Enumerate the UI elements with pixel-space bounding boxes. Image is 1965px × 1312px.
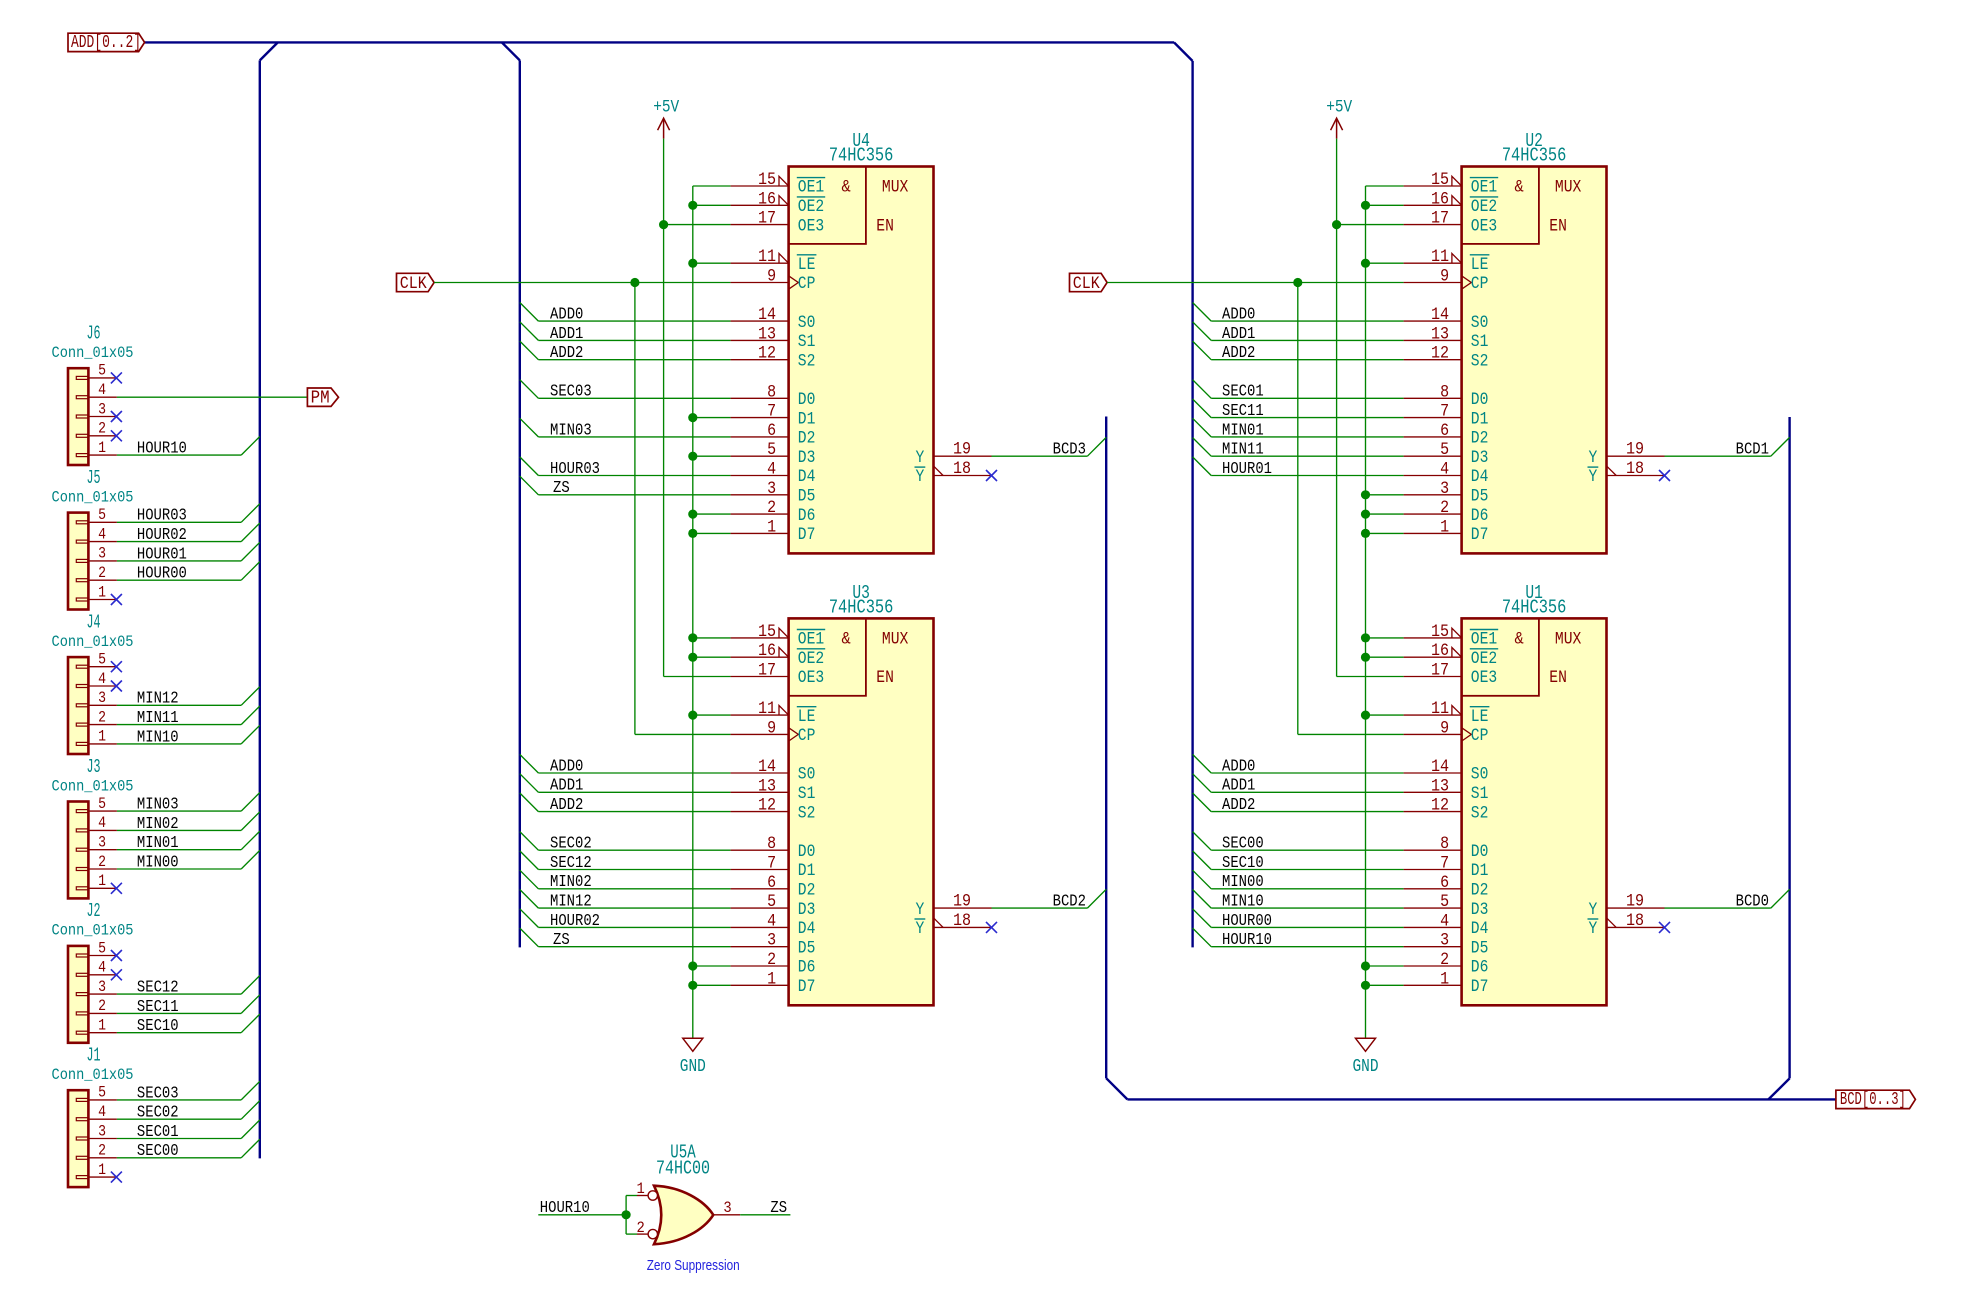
svg-text:2: 2 — [98, 420, 106, 438]
wire/net label HOUR00 to U1 — [1193, 909, 1404, 930]
svg-text:ADD0: ADD0 — [550, 756, 583, 775]
U1 pin 14 S0 — [1404, 757, 1489, 785]
svg-text:MIN00: MIN00 — [1222, 872, 1264, 891]
svg-text:3: 3 — [767, 931, 776, 951]
svg-text:1: 1 — [1440, 969, 1449, 989]
svg-text:HOUR01: HOUR01 — [137, 544, 187, 563]
U2 pin 5 D3 — [1404, 440, 1489, 468]
U4 pin 16 OE2 — [731, 189, 826, 217]
wire/net label SEC02 to U3 — [520, 832, 731, 853]
U2 pin 4 D4 — [1404, 460, 1489, 488]
wire/net label SEC11 from J2 pin 2 to bus — [117, 995, 260, 1016]
wire/net label ZS to U3 — [520, 928, 731, 949]
U3 pin 11 LE — [731, 699, 817, 727]
U1 pin 6 D2 — [1404, 873, 1489, 901]
svg-text:D3: D3 — [1471, 901, 1489, 920]
U3 AND-section symbol &amp; and MUX / EN labels — [842, 630, 909, 689]
U2 pin 11 LE — [1404, 247, 1490, 275]
svg-text:BCD0: BCD0 — [1736, 892, 1769, 911]
svg-text:HOUR10: HOUR10 — [137, 439, 187, 458]
U2 pin 2 D6 — [1404, 498, 1489, 526]
wire/net label MIN02 from J3 pin 4 to bus — [117, 812, 260, 833]
U3 pin 7 D1 — [731, 854, 816, 882]
svg-text:5: 5 — [98, 362, 106, 380]
NAND gate U5A 74HC00 (OR form with inverted inputs) — [654, 1186, 713, 1245]
wire/net label ADD2 to U2 — [1193, 341, 1404, 362]
wire/net label SEC03 from J1 pin 5 to bus — [117, 1081, 260, 1102]
svg-text:HOUR03: HOUR03 — [137, 506, 187, 525]
svg-text:1: 1 — [98, 1161, 106, 1179]
svg-text:4: 4 — [98, 814, 106, 832]
svg-text:BCD1: BCD1 — [1736, 440, 1769, 459]
U4 pin 17 OE3 — [731, 209, 825, 237]
J4 pin 4 — [88, 670, 117, 688]
wire GND rail to U2 unused inputs D5,D6,D7 — [1366, 495, 1404, 534]
U1 pin 16 OE2 — [1404, 641, 1499, 669]
no-connect X on J2 pin 4 — [111, 969, 122, 980]
svg-text:16: 16 — [758, 189, 776, 209]
svg-text:5: 5 — [1440, 440, 1449, 460]
J2 pin 2 — [88, 997, 117, 1015]
U4 pin 6 D2 — [731, 421, 816, 449]
U1 pin 13 S1 — [1404, 776, 1489, 804]
wire/net label HOUR01 to U2 — [1193, 457, 1404, 478]
U1 pin 19 Y output — [1589, 892, 1665, 920]
svg-text:15: 15 — [1431, 622, 1449, 642]
svg-text:D4: D4 — [798, 468, 816, 487]
J3 pin 2 — [88, 853, 117, 871]
bus BCD right vertical — [1788, 417, 1790, 1078]
svg-text:2: 2 — [98, 853, 106, 871]
svg-text:EN: EN — [876, 217, 894, 236]
U3 pin 12 S2 — [731, 796, 816, 824]
svg-text:D5: D5 — [1471, 488, 1489, 507]
svg-text:14: 14 — [1431, 757, 1449, 777]
svg-text:5: 5 — [98, 939, 106, 957]
svg-text:3: 3 — [767, 479, 776, 499]
svg-text:4: 4 — [1440, 911, 1449, 931]
U2 pin 16 OE2 — [1404, 189, 1499, 217]
svg-text:SEC03: SEC03 — [137, 1083, 179, 1102]
svg-text:MIN11: MIN11 — [1222, 440, 1264, 459]
svg-text:2: 2 — [98, 997, 106, 1015]
J6 pin 1 — [88, 439, 117, 457]
wire GND rail to U4 unused inputs D1,D3,D6,D7 — [693, 418, 731, 534]
svg-text:EN: EN — [1549, 217, 1567, 236]
svg-text:OE2: OE2 — [798, 198, 824, 217]
U1 pin 3 D5 — [1404, 931, 1489, 959]
svg-text:OE3: OE3 — [798, 669, 824, 688]
connector J6 Conn_01x05 body — [68, 368, 88, 465]
global label CLK — [397, 273, 435, 294]
no-connect X on J4 pin 4 — [111, 681, 122, 692]
svg-text:BCD[0..3]: BCD[0..3] — [1840, 1090, 1906, 1110]
svg-text:HOUR00: HOUR00 — [137, 564, 187, 583]
svg-text:OE2: OE2 — [1471, 198, 1497, 217]
U4 pin 2 D6 — [731, 498, 816, 526]
svg-text:SEC02: SEC02 — [550, 834, 592, 853]
bus bend to middle vertical — [502, 42, 520, 60]
wire/net label ADD2 to U4 — [520, 341, 731, 362]
no-connect X on J6 pin 2 — [111, 430, 122, 441]
wire BCD1 from U2 Y pin 19 to BCD bus — [1665, 437, 1790, 458]
svg-text:74HC356: 74HC356 — [1502, 597, 1567, 619]
svg-text:Conn_01x05: Conn_01x05 — [52, 633, 134, 651]
svg-text:4: 4 — [98, 670, 106, 688]
connector J2 Conn_01x05 body — [68, 946, 88, 1043]
wire/net label MIN00 from J3 pin 2 to bus — [117, 850, 260, 871]
global label BCD[0..3] — [1836, 1090, 1916, 1110]
J2 pin 3 — [88, 978, 117, 996]
svg-text:SEC12: SEC12 — [137, 978, 179, 997]
J6 pin 3 — [88, 400, 117, 418]
svg-text:HOUR03: HOUR03 — [550, 459, 600, 478]
svg-text:CP: CP — [798, 727, 816, 746]
svg-text:15: 15 — [758, 170, 776, 190]
svg-text:J4: J4 — [87, 611, 101, 633]
svg-text:5: 5 — [98, 506, 106, 524]
svg-text:MIN01: MIN01 — [137, 833, 179, 852]
svg-text:LE: LE — [1471, 256, 1489, 275]
svg-text:&: & — [1515, 178, 1524, 198]
svg-text:1: 1 — [98, 1017, 106, 1035]
U4 pin 8 D0 — [731, 382, 816, 410]
wire/net label MIN03 from J3 pin 5 to bus — [117, 793, 260, 814]
wire GND rail (OE1,OE2,LE,unused D inputs) — [693, 186, 731, 1038]
svg-text:SEC03: SEC03 — [550, 382, 592, 401]
svg-text:Y: Y — [1589, 901, 1598, 920]
svg-text:D3: D3 — [1471, 449, 1489, 468]
svg-text:&: & — [1515, 630, 1524, 650]
U3 pin 9 CP — [731, 718, 816, 746]
wire/net label MIN10 to U1 — [1193, 890, 1404, 911]
svg-text:D4: D4 — [1471, 920, 1489, 939]
global label PM — [307, 388, 338, 409]
U2 pin 18 Y-bar output (no-connect) — [1588, 459, 1665, 487]
U2 pin 12 S2 — [1404, 344, 1489, 372]
svg-text:5: 5 — [98, 651, 106, 669]
wire/net label SEC03 to U4 — [520, 380, 731, 401]
U2 pin 15 OE1 — [1404, 170, 1499, 198]
svg-text:17: 17 — [1431, 209, 1449, 229]
U2 pin 9 CP — [1404, 267, 1489, 295]
svg-text:OE3: OE3 — [1471, 217, 1497, 236]
svg-text:15: 15 — [758, 622, 776, 642]
svg-text:MIN01: MIN01 — [1222, 420, 1264, 439]
svg-text:HOUR02: HOUR02 — [137, 525, 187, 544]
wire/net label MIN00 to U1 — [1193, 870, 1404, 891]
wire/net label MIN11 to U2 — [1193, 438, 1404, 459]
svg-text:18: 18 — [1626, 459, 1644, 479]
J5 pin 3 — [88, 545, 117, 563]
svg-text:S1: S1 — [1471, 785, 1489, 804]
svg-text:74HC356: 74HC356 — [1502, 145, 1567, 167]
wire/net label HOUR00 from J5 pin 2 to bus — [117, 562, 260, 583]
svg-text:ADD1: ADD1 — [550, 776, 583, 795]
svg-text:8: 8 — [1440, 834, 1449, 854]
no-connect X on J4 pin 5 — [111, 661, 122, 672]
bus middle vertical (U4/U3 side) — [519, 60, 521, 947]
svg-text:2: 2 — [98, 1142, 106, 1160]
svg-text:11: 11 — [1431, 699, 1449, 719]
svg-text:S2: S2 — [798, 352, 816, 371]
U2 pin 13 S1 — [1404, 324, 1489, 352]
svg-text:SEC12: SEC12 — [550, 853, 592, 872]
svg-text:HOUR10: HOUR10 — [1222, 930, 1272, 949]
wire/net label MIN01 from J3 pin 3 to bus — [117, 831, 260, 852]
U3 pin 5 D3 — [731, 892, 816, 920]
junction +5V at U4 OE3 — [659, 220, 668, 229]
wire/net label ADD1 to U1 — [1193, 774, 1404, 795]
svg-text:D2: D2 — [798, 430, 816, 449]
IC U2 74HC356 multiplexer body — [1462, 167, 1607, 554]
svg-text:1: 1 — [98, 439, 106, 457]
svg-text:11: 11 — [758, 247, 776, 267]
wire/net label SEC10 to U1 — [1193, 851, 1404, 872]
svg-text:1: 1 — [767, 969, 776, 989]
U4 pin 1 D7 — [731, 517, 816, 545]
svg-text:Conn_01x05: Conn_01x05 — [52, 777, 134, 795]
svg-text:16: 16 — [758, 641, 776, 661]
svg-text:9: 9 — [1440, 267, 1449, 287]
svg-text:18: 18 — [953, 459, 971, 479]
svg-text:8: 8 — [767, 382, 776, 402]
svg-text:MUX: MUX — [882, 631, 908, 650]
U4 pin 13 S1 — [731, 324, 816, 352]
wire/net label SEC00 to U1 — [1193, 832, 1404, 853]
wire/net label SEC01 to U2 — [1193, 380, 1404, 401]
J2 pin 5 — [88, 939, 117, 957]
svg-text:19: 19 — [1626, 892, 1644, 912]
svg-text:MUX: MUX — [1555, 631, 1581, 650]
U3 pin 18 Y-bar output (no-connect) — [915, 911, 992, 939]
svg-text:3: 3 — [98, 978, 106, 996]
svg-text:ADD1: ADD1 — [550, 324, 583, 343]
svg-text:2: 2 — [98, 708, 106, 726]
U2 pin 7 D1 — [1404, 402, 1489, 430]
connector J3 Conn_01x05 body — [68, 802, 88, 899]
svg-text:5: 5 — [1440, 892, 1449, 912]
wire/net label SEC01 from J1 pin 3 to bus — [117, 1120, 260, 1141]
wire/net label HOUR03 to U4 — [520, 457, 731, 478]
U1 pin 8 D0 — [1404, 834, 1489, 862]
U3 pin 14 S0 — [731, 757, 816, 785]
svg-text:D5: D5 — [798, 488, 816, 507]
svg-text:D1: D1 — [1471, 410, 1489, 429]
bus left vertical (connector side) — [259, 60, 261, 1158]
U3 pin 15 OE1 — [731, 622, 826, 650]
svg-text:14: 14 — [1431, 305, 1449, 325]
svg-text:Y: Y — [1589, 449, 1598, 468]
svg-text:OE1: OE1 — [1471, 631, 1497, 650]
svg-text:EN: EN — [1549, 669, 1567, 688]
svg-text:6: 6 — [767, 873, 776, 893]
no-connect X on J6 pin 5 — [111, 372, 122, 383]
svg-text:D4: D4 — [798, 920, 816, 939]
wire J6 pin 4 to PM label — [117, 396, 308, 398]
svg-text:S2: S2 — [1471, 352, 1489, 371]
svg-text:D0: D0 — [1471, 843, 1489, 862]
svg-text:74HC00: 74HC00 — [656, 1157, 710, 1179]
svg-text:13: 13 — [758, 776, 776, 796]
wire/net label ADD1 to U3 — [520, 774, 731, 795]
U4 pin 19 Y output — [916, 440, 992, 468]
connector J4 Conn_01x05 body — [68, 657, 88, 754]
svg-text:D1: D1 — [798, 410, 816, 429]
U2 pin 1 D7 — [1404, 517, 1489, 545]
svg-text:6: 6 — [1440, 421, 1449, 441]
svg-text:OE3: OE3 — [1471, 669, 1497, 688]
svg-text:3: 3 — [98, 400, 106, 418]
svg-text:CP: CP — [1471, 727, 1489, 746]
svg-text:HOUR01: HOUR01 — [1222, 459, 1272, 478]
svg-text:5: 5 — [767, 440, 776, 460]
J3 pin 5 — [88, 795, 117, 813]
no-connect X on U2 pin 18 — [1659, 470, 1670, 481]
U4 pin 4 D4 — [731, 460, 816, 488]
svg-text:11: 11 — [1431, 247, 1449, 267]
U1 pin 5 D3 — [1404, 892, 1489, 920]
J3 pin 3 — [88, 834, 117, 852]
U3 pin 1 D7 — [731, 969, 816, 997]
svg-text:16: 16 — [1431, 641, 1449, 661]
wire/net label SEC12 from J2 pin 3 to bus — [117, 976, 260, 997]
svg-text:17: 17 — [758, 209, 776, 229]
svg-text:3: 3 — [98, 1122, 106, 1140]
wire/net label HOUR01 from J5 pin 3 to bus — [117, 542, 260, 563]
bus bend to right vertical — [1174, 42, 1193, 61]
no-connect X on J2 pin 5 — [111, 950, 122, 961]
U5A pin 2 (inverted input) — [636, 1219, 657, 1239]
svg-text:ADD0: ADD0 — [1222, 305, 1255, 324]
no-connect X on J6 pin 3 — [111, 411, 122, 422]
svg-text:LE: LE — [798, 256, 816, 275]
wire/net label ADD1 to U4 — [520, 322, 731, 343]
svg-text:16: 16 — [1431, 189, 1449, 209]
U4 AND-section symbol &amp; and MUX / EN labels — [842, 178, 909, 237]
svg-text:D7: D7 — [1471, 978, 1489, 997]
svg-text:PM: PM — [311, 389, 330, 409]
svg-text:2: 2 — [98, 564, 106, 582]
svg-text:19: 19 — [1626, 440, 1644, 460]
wire/net label MIN12 to U3 — [520, 890, 731, 911]
svg-text:BCD3: BCD3 — [1053, 440, 1086, 459]
svg-text:Y: Y — [1589, 468, 1598, 487]
bus BCD bend right — [1768, 1078, 1789, 1099]
wire +5V rail down to OE3 pins — [1337, 139, 1404, 677]
svg-text:CLK: CLK — [1073, 274, 1100, 294]
svg-text:9: 9 — [767, 267, 776, 287]
wire/net label ADD0 to U4 — [520, 303, 731, 324]
wire BCD3 from U4 Y pin 19 to BCD bus — [992, 437, 1107, 458]
bus ADD[0..2] horizontal trunk — [145, 41, 1174, 43]
svg-text:3: 3 — [98, 689, 106, 707]
svg-text:Conn_01x05: Conn_01x05 — [52, 922, 134, 940]
wire/net label ADD0 to U1 — [1193, 754, 1404, 775]
svg-text:Y: Y — [916, 449, 925, 468]
svg-text:4: 4 — [767, 460, 776, 480]
svg-text:ADD1: ADD1 — [1222, 776, 1255, 795]
svg-text:8: 8 — [767, 834, 776, 854]
wire/net label ADD2 to U1 — [1193, 793, 1404, 814]
junction +5V at U2 OE3 — [1332, 220, 1341, 229]
wire/net label MIN02 to U3 — [520, 870, 731, 891]
svg-text:EN: EN — [876, 669, 894, 688]
U1 pin 15 OE1 — [1404, 622, 1499, 650]
svg-text:&: & — [842, 630, 851, 650]
J4 pin 1 — [88, 728, 117, 746]
wire/net label SEC02 from J1 pin 4 to bus — [117, 1101, 260, 1122]
svg-text:J1: J1 — [87, 1045, 101, 1067]
no-connect X on U4 pin 18 — [986, 470, 997, 481]
svg-text:Y: Y — [916, 901, 925, 920]
svg-text:11: 11 — [758, 699, 776, 719]
wire/net label MIN03 to U4 — [520, 418, 731, 439]
U3 pin 4 D4 — [731, 911, 816, 939]
svg-text:D2: D2 — [798, 882, 816, 901]
wire/net label ZS to U4 — [520, 476, 731, 497]
wire/net label HOUR10 from J6 pin 1 to bus — [117, 437, 260, 458]
svg-text:74HC356: 74HC356 — [829, 597, 894, 619]
svg-text:1: 1 — [636, 1180, 644, 1198]
no-connect X on U1 pin 18 — [1659, 922, 1670, 933]
U1 pin 17 OE3 — [1404, 661, 1498, 689]
svg-text:1: 1 — [98, 583, 106, 601]
svg-text:6: 6 — [767, 421, 776, 441]
J5 pin 1 — [88, 583, 117, 601]
svg-text:HOUR00: HOUR00 — [1222, 911, 1272, 930]
svg-text:D0: D0 — [1471, 391, 1489, 410]
U3 pin 13 S1 — [731, 776, 816, 804]
svg-text:D1: D1 — [798, 862, 816, 881]
svg-text:MUX: MUX — [1555, 179, 1581, 198]
svg-text:MIN11: MIN11 — [137, 708, 179, 727]
svg-text:17: 17 — [1431, 661, 1449, 681]
U2 pin 17 OE3 — [1404, 209, 1498, 237]
wire/net label HOUR02 to U3 — [520, 909, 731, 930]
U4 pin 9 CP — [731, 267, 816, 295]
wire CLK to U2 CP pin 9 — [1107, 282, 1404, 284]
svg-text:SEC00: SEC00 — [1222, 834, 1264, 853]
svg-text:Conn_01x05: Conn_01x05 — [52, 344, 134, 362]
wire CLK branch down to U3 CP pin 9 — [634, 283, 636, 735]
global label CLK — [1070, 273, 1108, 294]
svg-text:2: 2 — [636, 1219, 644, 1237]
J1 pin 3 — [88, 1122, 117, 1140]
svg-text:12: 12 — [1431, 344, 1449, 364]
svg-text:MUX: MUX — [882, 179, 908, 198]
svg-text:7: 7 — [1440, 402, 1449, 422]
U1 pin 2 D6 — [1404, 950, 1489, 978]
svg-text:GND: GND — [1353, 1056, 1379, 1077]
junction CLK branch — [630, 278, 639, 287]
svg-text:3: 3 — [723, 1199, 731, 1217]
wire/net label MIN12 from J4 pin 3 to bus — [117, 687, 260, 708]
no-connect X on J1 pin 1 — [111, 1172, 122, 1183]
svg-text:S0: S0 — [798, 314, 816, 333]
U4 pin 5 D3 — [731, 440, 816, 468]
junction at U5A input branch — [622, 1210, 631, 1219]
U3 pin 8 D0 — [731, 834, 816, 862]
bus bend to left vertical — [260, 42, 278, 60]
svg-text:OE1: OE1 — [798, 179, 824, 198]
power symbol +5V — [653, 99, 680, 139]
U1 pin 11 LE — [1404, 699, 1490, 727]
U4 pin 12 S2 — [731, 344, 816, 372]
svg-text:74HC356: 74HC356 — [829, 145, 894, 167]
J2 pin 4 — [88, 959, 117, 977]
svg-text:S2: S2 — [1471, 804, 1489, 823]
